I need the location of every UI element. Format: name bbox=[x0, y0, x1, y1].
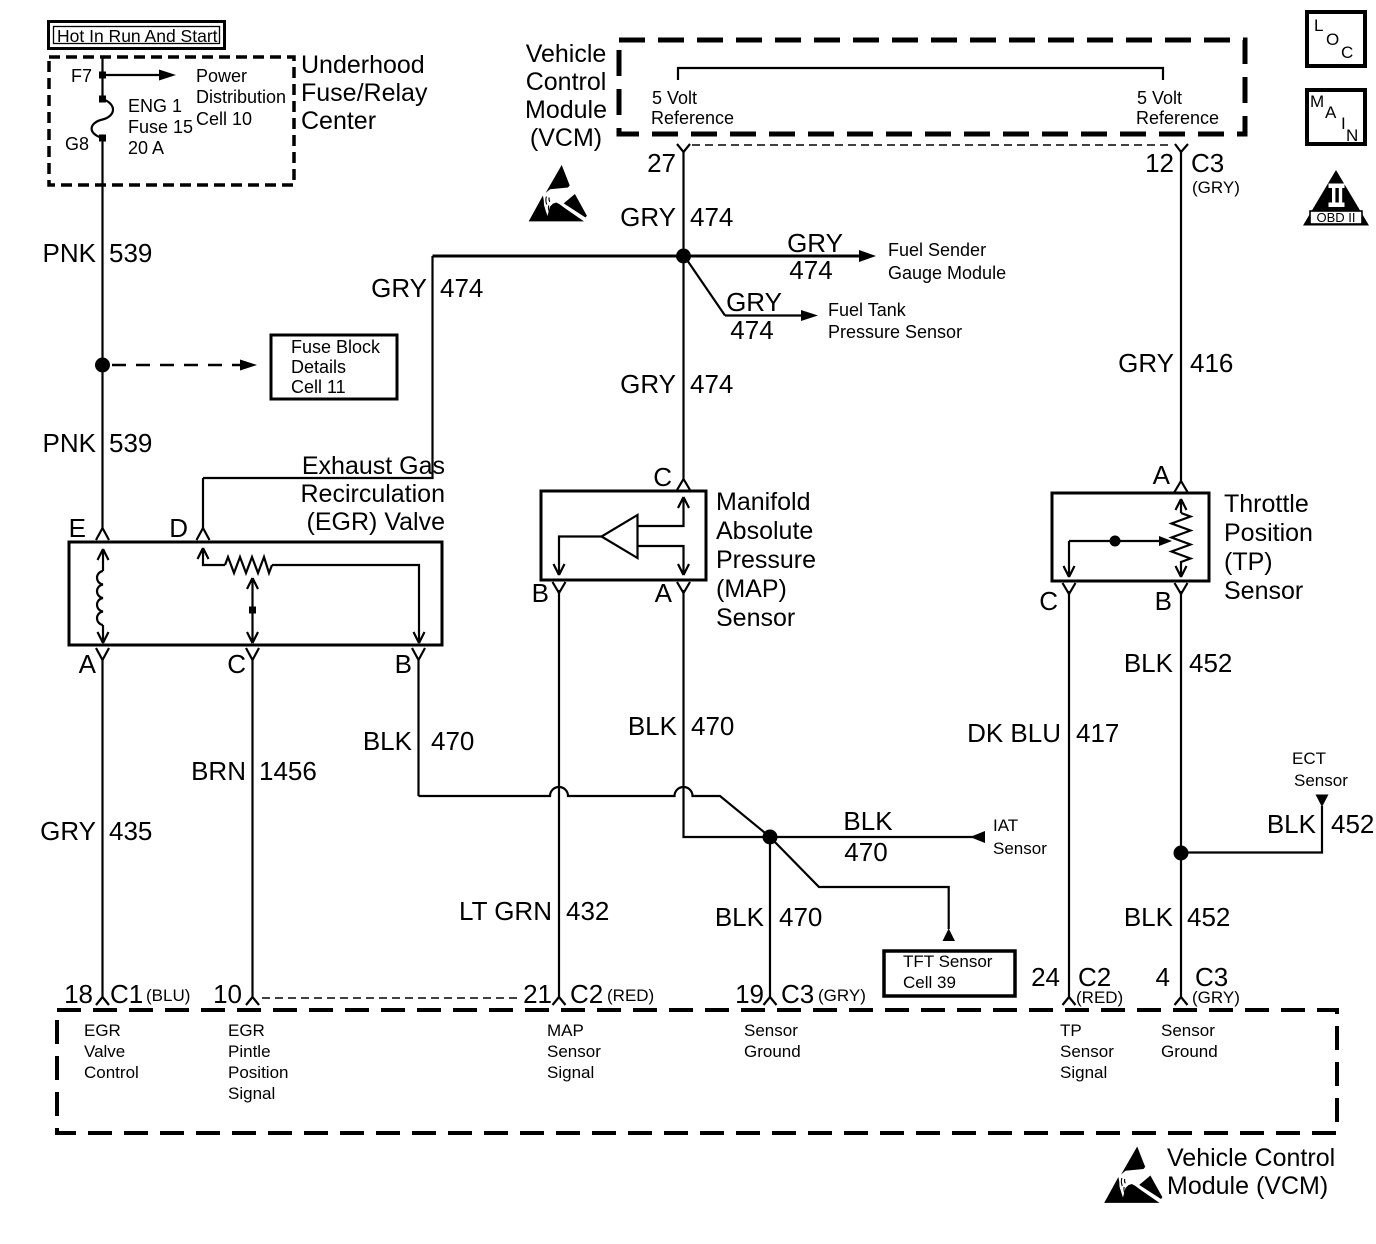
svg-text:(GRY): (GRY) bbox=[1192, 178, 1240, 197]
svg-text:452: 452 bbox=[1187, 902, 1230, 932]
svg-text:Sensor: Sensor bbox=[1161, 1021, 1215, 1040]
pin 18 C1 (BLU) bbox=[96, 997, 109, 1005]
svg-text:C3: C3 bbox=[1191, 148, 1224, 178]
svg-text:C3: C3 bbox=[781, 979, 814, 1009]
svg-text:Fuel Sender: Fuel Sender bbox=[888, 240, 986, 260]
svg-text:Cell 11: Cell 11 bbox=[291, 377, 346, 397]
svg-text:EGR: EGR bbox=[84, 1021, 121, 1040]
svg-text:Gauge Module: Gauge Module bbox=[888, 263, 1006, 283]
svg-text:O: O bbox=[1326, 30, 1339, 49]
connector row dashed line bbox=[262, 997, 520, 999]
svg-text:BLK: BLK bbox=[715, 902, 765, 932]
svg-text:474: 474 bbox=[440, 273, 483, 303]
Hot In Run And Start box bbox=[49, 22, 225, 49]
fuel tank branch bbox=[687, 260, 725, 316]
svg-text:IAT: IAT bbox=[993, 816, 1018, 835]
svg-text:EGR: EGR bbox=[228, 1021, 265, 1040]
svg-text:474: 474 bbox=[730, 315, 773, 345]
svg-text:(BLU): (BLU) bbox=[146, 986, 190, 1005]
pin A bbox=[96, 648, 109, 660]
svg-text:GRY: GRY bbox=[371, 273, 427, 303]
svg-text:Fuse 15: Fuse 15 bbox=[128, 117, 193, 137]
bottom VCM dashed box bbox=[57, 1010, 1337, 1133]
svg-text:(EGR) Valve: (EGR) Valve bbox=[307, 508, 445, 536]
svg-text:GRY: GRY bbox=[1118, 348, 1174, 378]
svg-text:452: 452 bbox=[1189, 648, 1232, 678]
pin 27 bbox=[677, 144, 690, 152]
svg-text:C: C bbox=[227, 649, 246, 679]
svg-text:Power: Power bbox=[196, 66, 247, 86]
EGR solenoid coil bbox=[98, 549, 109, 571]
svg-text:Details: Details bbox=[291, 357, 346, 377]
svg-text:5 Volt: 5 Volt bbox=[1137, 88, 1182, 108]
svg-text:27: 27 bbox=[647, 148, 676, 178]
svg-text:20 A: 20 A bbox=[128, 138, 164, 158]
TP wiper bbox=[1069, 540, 1160, 542]
svg-text:C2: C2 bbox=[570, 979, 603, 1009]
svg-text:Sensor: Sensor bbox=[547, 1042, 601, 1061]
svg-text:Pressure: Pressure bbox=[716, 546, 816, 574]
wire A down then right bbox=[684, 590, 975, 837]
svg-text:432: 432 bbox=[566, 896, 609, 926]
svg-text:C: C bbox=[1341, 43, 1353, 62]
wire B down to pin 4 bbox=[1180, 591, 1182, 997]
svg-text:Sensor: Sensor bbox=[1060, 1042, 1114, 1061]
svg-text:Fuse/Relay: Fuse/Relay bbox=[301, 79, 428, 107]
svg-text:Throttle: Throttle bbox=[1224, 490, 1309, 518]
svg-text:Pressure Sensor: Pressure Sensor bbox=[828, 322, 962, 342]
svg-text:BLK: BLK bbox=[1124, 648, 1174, 678]
svg-text:E: E bbox=[69, 513, 86, 543]
svg-text:C: C bbox=[653, 462, 672, 492]
wire B down to pin 21 bbox=[558, 590, 560, 997]
svg-text:(GRY): (GRY) bbox=[818, 986, 866, 1005]
svg-text:5 Volt: 5 Volt bbox=[652, 88, 697, 108]
svg-text:TFT Sensor: TFT Sensor bbox=[903, 952, 993, 971]
svg-text:GRY: GRY bbox=[787, 228, 843, 258]
svg-text:F7: F7 bbox=[71, 66, 92, 86]
ground bus with hops bbox=[419, 787, 771, 837]
svg-text:Signal: Signal bbox=[547, 1063, 594, 1082]
EGR valve box bbox=[69, 542, 442, 645]
svg-text:416: 416 bbox=[1190, 348, 1233, 378]
Underhood Fuse/Relay Center dashed box bbox=[49, 57, 294, 185]
svg-text:BLK: BLK bbox=[1267, 809, 1317, 839]
svg-text:(RED): (RED) bbox=[1076, 988, 1123, 1007]
MAIN box bbox=[1307, 90, 1365, 145]
svg-text:(MAP): (MAP) bbox=[716, 575, 787, 603]
wire down to pin 19 bbox=[769, 837, 771, 997]
svg-text:Signal: Signal bbox=[1060, 1063, 1107, 1082]
svg-text:Reference: Reference bbox=[1136, 108, 1219, 128]
svg-text:BLK: BLK bbox=[628, 711, 678, 741]
svg-text:Pintle: Pintle bbox=[228, 1042, 271, 1061]
svg-text:435: 435 bbox=[109, 816, 152, 846]
pin 4 C3 (GRY) bbox=[1175, 997, 1188, 1005]
svg-text:Exhaust Gas: Exhaust Gas bbox=[302, 452, 445, 480]
wire 27 down to MAP C bbox=[682, 152, 684, 481]
OBD II symbol bbox=[1303, 170, 1369, 226]
svg-text:(GRY): (GRY) bbox=[1192, 988, 1240, 1007]
TP sensor box bbox=[1052, 493, 1209, 581]
svg-text:Hot In Run And Start: Hot In Run And Start bbox=[57, 26, 218, 46]
5 volt reference bracket bbox=[678, 68, 1163, 80]
svg-text:C1: C1 bbox=[110, 979, 143, 1009]
svg-text:N: N bbox=[1346, 126, 1358, 145]
svg-text:ENG 1: ENG 1 bbox=[128, 96, 182, 116]
svg-text:A: A bbox=[79, 649, 97, 679]
MAP sensor box bbox=[541, 491, 706, 580]
svg-text:GRY: GRY bbox=[620, 202, 676, 232]
svg-text:539: 539 bbox=[109, 428, 152, 458]
svg-text:TP: TP bbox=[1060, 1021, 1082, 1040]
svg-text:OBD II: OBD II bbox=[1316, 210, 1355, 225]
pin C bbox=[1063, 583, 1076, 594]
svg-text:GRY: GRY bbox=[40, 816, 96, 846]
wiper bbox=[247, 578, 258, 643]
svg-text:BLK: BLK bbox=[363, 726, 413, 756]
svg-text:474: 474 bbox=[789, 255, 832, 285]
svg-text:1456: 1456 bbox=[259, 756, 317, 786]
pin D bbox=[197, 528, 210, 540]
svg-text:470: 470 bbox=[779, 902, 822, 932]
wire C down to pin 10 bbox=[251, 659, 253, 997]
svg-text:Manifold: Manifold bbox=[716, 488, 811, 516]
branch to TFT sensor bbox=[770, 837, 949, 929]
svg-text:BLK: BLK bbox=[843, 806, 893, 836]
svg-text:D: D bbox=[169, 513, 188, 543]
svg-text:Sensor: Sensor bbox=[1294, 771, 1348, 790]
svg-text:Signal: Signal bbox=[228, 1084, 275, 1103]
svg-text:452: 452 bbox=[1331, 809, 1374, 839]
pin C bbox=[246, 648, 259, 660]
svg-text:474: 474 bbox=[690, 202, 733, 232]
svg-text:M: M bbox=[1310, 92, 1324, 111]
svg-text:Distribution: Distribution bbox=[196, 87, 286, 107]
svg-text:474: 474 bbox=[690, 369, 733, 399]
Fuse Block Details Cell 11 box bbox=[271, 335, 397, 399]
left 474 branch down to EGR D bbox=[431, 256, 433, 478]
junction on wire 474 bbox=[676, 249, 691, 264]
ECT sensor branch bbox=[1174, 846, 1189, 861]
VCM dashed box top bbox=[619, 40, 1245, 134]
svg-text:470: 470 bbox=[431, 726, 474, 756]
svg-text:Ground: Ground bbox=[744, 1042, 801, 1061]
ground junction bbox=[763, 830, 778, 845]
svg-text:A: A bbox=[1153, 460, 1171, 490]
svg-text:(RED): (RED) bbox=[607, 986, 654, 1005]
wire B down bbox=[417, 659, 419, 796]
svg-text:G8: G8 bbox=[65, 134, 89, 154]
svg-text:BLK: BLK bbox=[1124, 902, 1174, 932]
wire A down to pin 18 bbox=[101, 659, 103, 997]
svg-text:Cell 39: Cell 39 bbox=[903, 973, 956, 992]
svg-text:12: 12 bbox=[1145, 148, 1174, 178]
svg-text:(VCM): (VCM) bbox=[530, 124, 602, 152]
wire C down to pin 24 bbox=[1068, 591, 1070, 997]
svg-text:417: 417 bbox=[1076, 718, 1119, 748]
svg-text:Vehicle Control: Vehicle Control bbox=[1167, 1144, 1335, 1172]
svg-text:Underhood: Underhood bbox=[301, 51, 425, 79]
svg-text:21: 21 bbox=[523, 979, 552, 1009]
svg-text:Absolute: Absolute bbox=[716, 517, 813, 545]
svg-text:Valve: Valve bbox=[84, 1042, 125, 1061]
svg-text:PNK: PNK bbox=[43, 238, 97, 268]
svg-text:Recirculation: Recirculation bbox=[300, 480, 445, 508]
TP resistor bbox=[1176, 499, 1187, 513]
wire 12 down to TP A bbox=[1180, 152, 1182, 481]
pin 21 C2 (RED) bbox=[553, 997, 566, 1005]
main 5v horizontal wire bbox=[433, 255, 861, 258]
svg-text:GRY: GRY bbox=[726, 287, 782, 317]
EGR pintle potentiometer bbox=[198, 548, 226, 565]
svg-text:DK BLU: DK BLU bbox=[967, 718, 1061, 748]
pin 19 C3 (GRY) bbox=[764, 997, 777, 1005]
svg-text:Position: Position bbox=[1224, 519, 1313, 547]
svg-text:4: 4 bbox=[1156, 962, 1170, 992]
svg-text:Vehicle: Vehicle bbox=[526, 40, 607, 68]
svg-text:BRN: BRN bbox=[191, 756, 246, 786]
arrow to Power Distribution bbox=[103, 74, 161, 76]
svg-text:Sensor: Sensor bbox=[716, 604, 795, 632]
svg-text:B: B bbox=[532, 578, 549, 608]
svg-text:18: 18 bbox=[64, 979, 93, 1009]
pin E bbox=[96, 528, 109, 540]
svg-text:Reference: Reference bbox=[651, 108, 734, 128]
svg-text:B: B bbox=[1155, 586, 1172, 616]
svg-text:Position: Position bbox=[228, 1063, 288, 1082]
svg-text:470: 470 bbox=[691, 711, 734, 741]
svg-text:Fuel Tank: Fuel Tank bbox=[828, 300, 907, 320]
fuel sender arrow bbox=[859, 250, 876, 262]
svg-text:MAP: MAP bbox=[547, 1021, 584, 1040]
pin 12 C3 (GRY) bbox=[1175, 144, 1188, 152]
svg-text:PNK: PNK bbox=[43, 428, 97, 458]
wire from hot box through fuse to EGR pin E bbox=[101, 57, 103, 99]
pin 10 bbox=[246, 997, 259, 1005]
svg-text:Module: Module bbox=[525, 96, 607, 124]
svg-text:Cell 10: Cell 10 bbox=[196, 109, 252, 129]
pin A bbox=[1175, 481, 1188, 492]
LOC box bbox=[1307, 12, 1365, 66]
junction to fuse block details bbox=[95, 358, 110, 373]
pin B bbox=[412, 648, 425, 660]
pin A bbox=[677, 582, 690, 593]
svg-text:GRY: GRY bbox=[620, 369, 676, 399]
svg-text:Control: Control bbox=[526, 68, 607, 96]
IAT sensor arrow bbox=[970, 831, 985, 843]
ESD symbol top bbox=[529, 165, 587, 221]
svg-text:539: 539 bbox=[109, 238, 152, 268]
TFT Sensor Cell 39 box bbox=[884, 951, 1015, 996]
node F7 bbox=[99, 72, 106, 79]
pin B bbox=[1175, 583, 1188, 594]
svg-text:LT GRN: LT GRN bbox=[459, 896, 552, 926]
pin 24 C2 (RED) bbox=[1063, 997, 1076, 1005]
svg-text:ECT: ECT bbox=[1292, 749, 1326, 768]
svg-text:(TP): (TP) bbox=[1224, 548, 1273, 576]
fuse ENG 1 Fuse 15 20 A bbox=[99, 96, 106, 103]
svg-text:Fuse Block: Fuse Block bbox=[291, 337, 381, 357]
svg-text:Control: Control bbox=[84, 1063, 139, 1082]
svg-text:Module (VCM): Module (VCM) bbox=[1167, 1172, 1328, 1200]
svg-text:Sensor: Sensor bbox=[744, 1021, 798, 1040]
svg-text:24: 24 bbox=[1031, 962, 1060, 992]
svg-text:A: A bbox=[655, 578, 673, 608]
svg-text:L: L bbox=[1314, 16, 1323, 35]
svg-text:Center: Center bbox=[301, 107, 376, 135]
svg-text:19: 19 bbox=[735, 979, 764, 1009]
svg-text:A: A bbox=[1325, 103, 1337, 122]
MAP internals bbox=[638, 497, 690, 526]
connector face dashed line bbox=[692, 144, 1172, 146]
svg-text:10: 10 bbox=[213, 979, 242, 1009]
svg-text:Ground: Ground bbox=[1161, 1042, 1218, 1061]
svg-text:Sensor: Sensor bbox=[993, 839, 1047, 858]
pin C bbox=[677, 479, 690, 490]
svg-text:B: B bbox=[395, 649, 412, 679]
bottom ESD symbol bbox=[1104, 1147, 1162, 1203]
svg-text:Sensor: Sensor bbox=[1224, 577, 1303, 605]
svg-text:C: C bbox=[1039, 586, 1058, 616]
pin B bbox=[553, 582, 566, 593]
svg-text:470: 470 bbox=[844, 837, 887, 867]
